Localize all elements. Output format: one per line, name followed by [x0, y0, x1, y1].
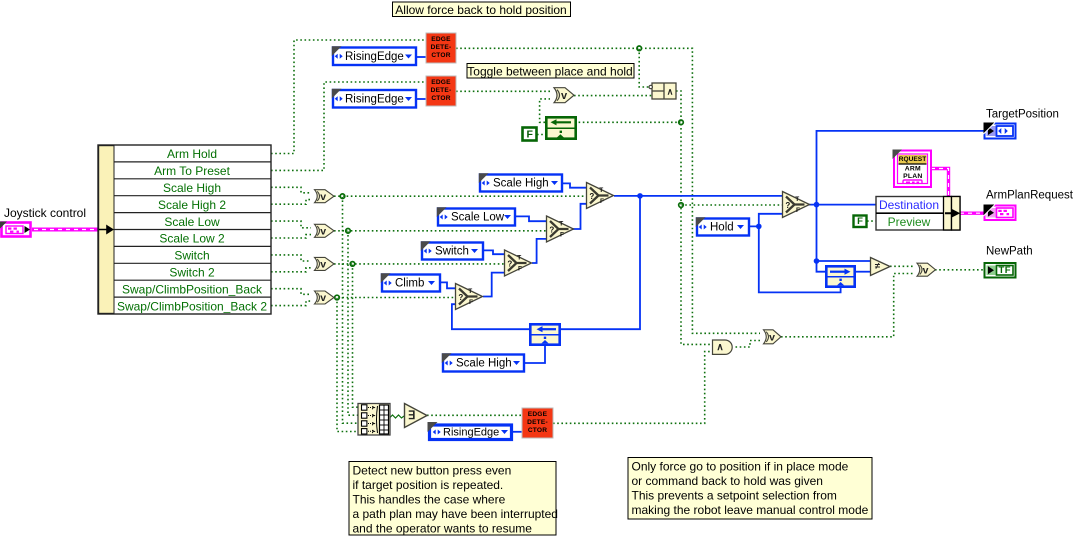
edge detector 2 [426, 76, 456, 106]
TargetPosition indicator [984, 123, 1016, 139]
svg-text:CTOR: CTOR [431, 52, 450, 59]
feedback node blue 1 [529, 324, 561, 344]
green junction OR3 [350, 262, 355, 267]
svg-text:ArmPlanRequest: ArmPlanRequest [986, 190, 1074, 202]
wire: edge detector 3 output up to AND2 lower input [553, 352, 712, 424]
wire: OR2 branch down to build array input 2 [348, 231, 358, 415]
enum constant Scale High [479, 173, 562, 191]
edge detector 1 [426, 33, 456, 63]
green junction OR2 [346, 229, 351, 234]
wire: OR5 output to NewPath indicator [935, 269, 984, 271]
svg-text:Hold: Hold [710, 222, 734, 234]
svg-text:Only force go to position if i: Only force go to position if in place mo… [632, 460, 849, 474]
select node 3 [505, 250, 532, 276]
svg-text:DETE-: DETE- [527, 419, 548, 426]
wire: select 2 output up to select 1 lower input [572, 204, 586, 229]
wire: Switch enum to select 3 top input [483, 250, 504, 254]
svg-text:∃: ∃ [408, 410, 416, 422]
wire: ArmPlan VI to bundle node [931, 169, 949, 197]
svg-text:Arm Hold: Arm Hold [167, 147, 217, 161]
green junction AND rail feedback [679, 120, 684, 125]
wire: bundle output to ArmPlanRequest [960, 211, 984, 214]
svg-text:∧: ∧ [667, 87, 674, 97]
svg-text:F: F [857, 216, 863, 227]
svg-text:v: v [561, 90, 568, 102]
wire: AND output down left rail [676, 91, 712, 344]
wire: Swap/ClimbPosition_Back 2 row to OR4 [271, 301, 311, 306]
unbundle by name node [98, 145, 271, 314]
svg-text:Toggle between place and hold: Toggle between place and hold [467, 64, 632, 78]
svg-text:CTOR: CTOR [528, 427, 547, 434]
svg-text:∧: ∧ [716, 342, 723, 353]
svg-text:Swap/ClimbPosition_Back 2: Swap/ClimbPosition_Back 2 [117, 299, 267, 313]
wire: junction to feedback node input [577, 121, 681, 123]
comment box 2 [628, 458, 872, 520]
wire: Hold enum to select 5 lower input [749, 214, 782, 227]
svg-text:Switch: Switch [435, 246, 469, 258]
F constant 2 [854, 216, 867, 228]
label Allow force back to hold position [393, 2, 571, 17]
svg-text:Scale Low: Scale Low [451, 212, 505, 224]
svg-text:or command back to hold was gi: or command back to hold was given [632, 474, 823, 488]
svg-text:RQUEST: RQUEST [899, 156, 926, 163]
wire: joystick cluster wire [32, 228, 98, 232]
svg-text:Climb: Climb [395, 278, 424, 290]
wire: Climb enum to select 4 top input [440, 282, 455, 288]
wire: Switch 2 row to OR3 [271, 268, 311, 272]
green junction top rail [637, 46, 642, 51]
wire: OR1 branch down to build array input 3 [343, 196, 359, 423]
junction dot Hold [756, 224, 762, 230]
OR gate 2 [315, 224, 335, 237]
svg-text:Switch 2: Switch 2 [169, 266, 215, 280]
AND gate 2 (D shape) [713, 340, 733, 354]
wire: Scale Low row to OR2 [271, 221, 311, 228]
svg-text:Scale High: Scale High [456, 358, 512, 370]
wire: Hold branch down to feedback node 2 initializer [759, 226, 841, 292]
OR gate 5 (NewPath) [917, 263, 936, 276]
svg-text:Joystick control: Joystick control [4, 206, 86, 220]
wire: branch down to feedback node 1 input [561, 196, 640, 329]
svg-text:EDGE: EDGE [528, 411, 548, 418]
wire: F constant 2 to Preview input [867, 220, 876, 222]
OR gate 4 [315, 291, 335, 304]
wire: RisingEdge 3 to edge detector 3 [513, 431, 522, 433]
wire: RisingEdge 2 to edge detector 2 [417, 98, 426, 100]
NewPath indicator [985, 263, 1016, 278]
OR gate 3 [315, 257, 335, 270]
green junction OR1 [340, 194, 345, 199]
wire: AND2 output to bottom OR gate lower input [736, 341, 761, 348]
wire: edge detector 2 output to OR gate top input [456, 90, 550, 92]
svg-text:EDGE: EDGE [431, 36, 451, 43]
svg-text:CTOR: CTOR [431, 95, 450, 102]
svg-text:Scale High 2: Scale High 2 [158, 198, 226, 212]
select node 4 [456, 284, 483, 310]
Or Array Elements node [405, 404, 428, 428]
enum constant RisingEdge 3 [428, 422, 512, 440]
svg-text:RisingEdge: RisingEdge [345, 94, 404, 106]
svg-text:v: v [923, 264, 929, 276]
wire: Or Array Elements output to edge detector 3 [427, 414, 522, 416]
OR gate 1 [315, 190, 335, 203]
wire: rail to select 5 selector input [681, 204, 782, 206]
wire: select 3 output up to select 2 lower input [532, 239, 546, 263]
svg-text:making the robot leave manual: making the robot leave manual control mo… [632, 503, 869, 517]
svg-text:PLAN: PLAN [903, 173, 922, 180]
select node 2 [547, 216, 574, 242]
not equal node [871, 258, 891, 276]
wire: branch to not-equal top input [817, 260, 871, 262]
svg-text:Scale Low 2: Scale Low 2 [159, 232, 225, 246]
Joystick control terminal [0, 222, 31, 237]
wire: select 5 output to junction [809, 204, 876, 206]
wire: OR3 branch down to build array input 1 [353, 264, 359, 407]
wire: junction up to TargetPosition [817, 131, 985, 205]
bundle by name node Destination/Preview [876, 197, 960, 231]
wire: edge detector 1 output across top and down to bottom OR gate [456, 48, 760, 333]
enum constant Switch [421, 241, 483, 259]
label Toggle between place and hold [467, 64, 634, 79]
svg-text:ARM: ARM [905, 166, 921, 173]
svg-text:EDGE: EDGE [431, 79, 451, 86]
wire: Scale High enum 2 to feedback node 1 initializer [524, 346, 545, 363]
enum constant RisingEdge 2 [332, 89, 416, 108]
enum constant RisingEdge 1 [332, 46, 416, 65]
svg-text:if target position is repeated: if target position is repeated. [353, 478, 504, 492]
svg-text:Destination: Destination [879, 198, 939, 212]
wire: Scale High row to OR1 [271, 187, 311, 193]
svg-text:Arm To Preset: Arm To Preset [154, 164, 230, 178]
junction dot not-equal branch [814, 258, 820, 264]
wire: Arm To Preset to edge detector 2 [271, 82, 426, 170]
OR gate bottom [764, 330, 782, 344]
svg-text:F: F [526, 129, 533, 141]
enum constant Hold [696, 217, 749, 235]
enum constant Climb [381, 273, 440, 291]
junction dot select5 output [814, 202, 820, 208]
wire: OR2 output to select 2 selector [334, 230, 546, 232]
green junction OR4 [335, 295, 340, 300]
svg-text:≠: ≠ [875, 261, 881, 272]
wire: RisingEdge 1 to edge detector 1 [417, 56, 426, 58]
comment box 1 [349, 462, 558, 536]
wire: feedback node output up to OR gate lower input [540, 99, 550, 122]
wire: Scale High enum to select 1 top input [562, 183, 586, 187]
wire: Scale Low enum to select 2 top input [515, 216, 546, 221]
green junction AND rail select5 [679, 203, 684, 208]
wire: select 1 output across to select 5 top input [614, 195, 782, 197]
build array node [358, 404, 390, 436]
svg-text:Scale High: Scale High [493, 178, 549, 190]
ArmPlan VI icon (RQUEST ARM PLAN) [893, 150, 932, 188]
wire: select 4 output up to select 3 lower input [483, 273, 504, 297]
svg-text:RisingEdge: RisingEdge [345, 51, 404, 63]
wire: not-equal output to OR5 top input [890, 265, 914, 267]
wire: feedback node 1 output to select 4 lower input [452, 304, 529, 329]
svg-text:DETE-: DETE- [431, 87, 452, 94]
wire: OR4 branch down to build array input 4 [337, 298, 358, 432]
feedback node blue 2 (arrow right) [825, 266, 856, 286]
svg-text:TF: TF [998, 265, 1011, 276]
wire: build array output zigzag to Or Array Elements [390, 415, 404, 418]
wire: branch down to negated AND input [639, 48, 649, 87]
svg-text:Allow force back to hold posit: Allow force back to hold position [395, 3, 566, 17]
select node 1 [587, 183, 614, 209]
wire: Swap/ClimbPosition_Back row to OR4 [271, 289, 311, 295]
wire: feedback node 2 output to not-equal lower input [856, 271, 870, 273]
junction dot select1 output [637, 193, 643, 199]
svg-text:v: v [769, 331, 775, 343]
enum constant Scale Low [437, 207, 515, 225]
F constant 1 [523, 128, 537, 141]
svg-text:a path plan may have been inte: a path plan may have been interrupted [353, 507, 558, 521]
svg-text:RisingEdge: RisingEdge [443, 427, 499, 439]
enum constant Scale High 2 [442, 353, 524, 371]
svg-text:Preview: Preview [888, 215, 931, 229]
wire: OR3 output to select 3 selector [334, 263, 504, 265]
wire: Arm Hold to edge detector 1 [271, 40, 426, 154]
feedback node green [545, 117, 577, 138]
wire: Switch row to OR3 [271, 255, 311, 261]
wire: Scale Low 2 row to OR2 [271, 235, 311, 238]
svg-text:This prevents a setpoint selec: This prevents a setpoint selection from [632, 489, 837, 503]
compound AND node with negated input [649, 83, 676, 99]
wire: junction down to not-equal and feedback 2 [817, 205, 826, 272]
edge detector 3 [522, 408, 553, 438]
wire: F constant to feedback initializer [537, 134, 545, 136]
svg-text:This handles the case where: This handles the case where [353, 493, 506, 507]
svg-text:DETE-: DETE- [431, 44, 452, 51]
svg-text:Swap/ClimbPosition_Back: Swap/ClimbPosition_Back [122, 282, 263, 296]
svg-text:NewPath: NewPath [986, 246, 1033, 258]
ArmPlanRequest indicator [984, 205, 1016, 221]
svg-text:Switch: Switch [174, 249, 209, 263]
svg-text:Scale High: Scale High [163, 181, 221, 195]
wire: OR4 output to select 4 selector [334, 297, 455, 299]
svg-text:Scale Low: Scale Low [164, 215, 220, 229]
select node 5 [783, 192, 810, 218]
svg-text:and the operator wants to resu: and the operator wants to resume [353, 522, 533, 536]
wire: top OR gate output to AND lower input [574, 95, 652, 97]
svg-text:Detect new button press even: Detect new button press even [353, 464, 512, 478]
svg-text:TargetPosition: TargetPosition [986, 109, 1059, 121]
wire: OR1 output to select 1 selector [334, 195, 586, 197]
OR gate top (place/hold) [554, 88, 574, 103]
wire: Scale High 2 row to OR1 [271, 200, 311, 205]
wire: bottom OR output right and up to OR5 lower input [781, 274, 914, 337]
